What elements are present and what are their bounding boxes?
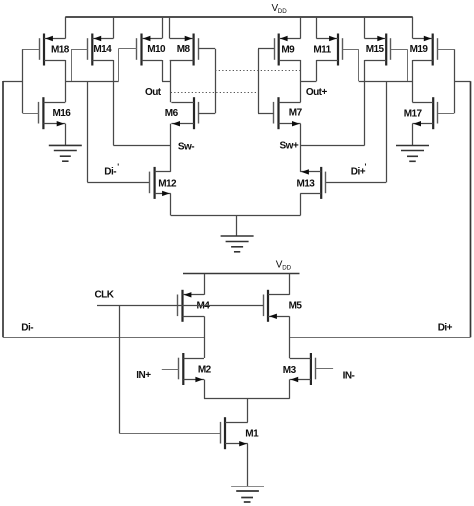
svg-text:DD: DD [282, 265, 291, 272]
svg-text:Sw+: Sw+ [280, 141, 299, 152]
svg-text:M7: M7 [289, 108, 303, 119]
svg-text:M1: M1 [245, 429, 259, 440]
svg-text:M5: M5 [289, 300, 303, 311]
svg-text:M6: M6 [165, 108, 179, 119]
svg-text:M17: M17 [404, 109, 423, 120]
svg-text:Di+: Di+ [438, 323, 453, 334]
svg-text:Di-: Di- [21, 323, 33, 334]
svg-text:M16: M16 [53, 108, 72, 119]
svg-text:M13: M13 [297, 179, 316, 190]
svg-text:M14: M14 [93, 44, 112, 55]
svg-text:DD: DD [278, 8, 287, 15]
svg-text:M9: M9 [281, 45, 295, 56]
svg-text:M19: M19 [410, 44, 429, 55]
svg-text:M2: M2 [198, 365, 212, 376]
svg-text:M8: M8 [177, 44, 191, 55]
svg-text:Out+: Out+ [306, 87, 328, 98]
svg-text:CLK: CLK [95, 289, 115, 300]
svg-text:Di+: Di+ [351, 167, 366, 178]
svg-text:M15: M15 [366, 44, 385, 55]
svg-text:Out: Out [145, 87, 162, 98]
svg-text:M12: M12 [158, 179, 177, 190]
svg-text:M10: M10 [147, 44, 166, 55]
svg-text:IN+: IN+ [136, 370, 151, 381]
svg-text:M3: M3 [283, 365, 297, 376]
svg-text:Di-: Di- [104, 167, 116, 178]
svg-text:IN-: IN- [343, 370, 355, 381]
svg-text:M18: M18 [51, 45, 70, 56]
svg-text:Sw-: Sw- [178, 142, 194, 153]
svg-text:M11: M11 [313, 45, 331, 56]
